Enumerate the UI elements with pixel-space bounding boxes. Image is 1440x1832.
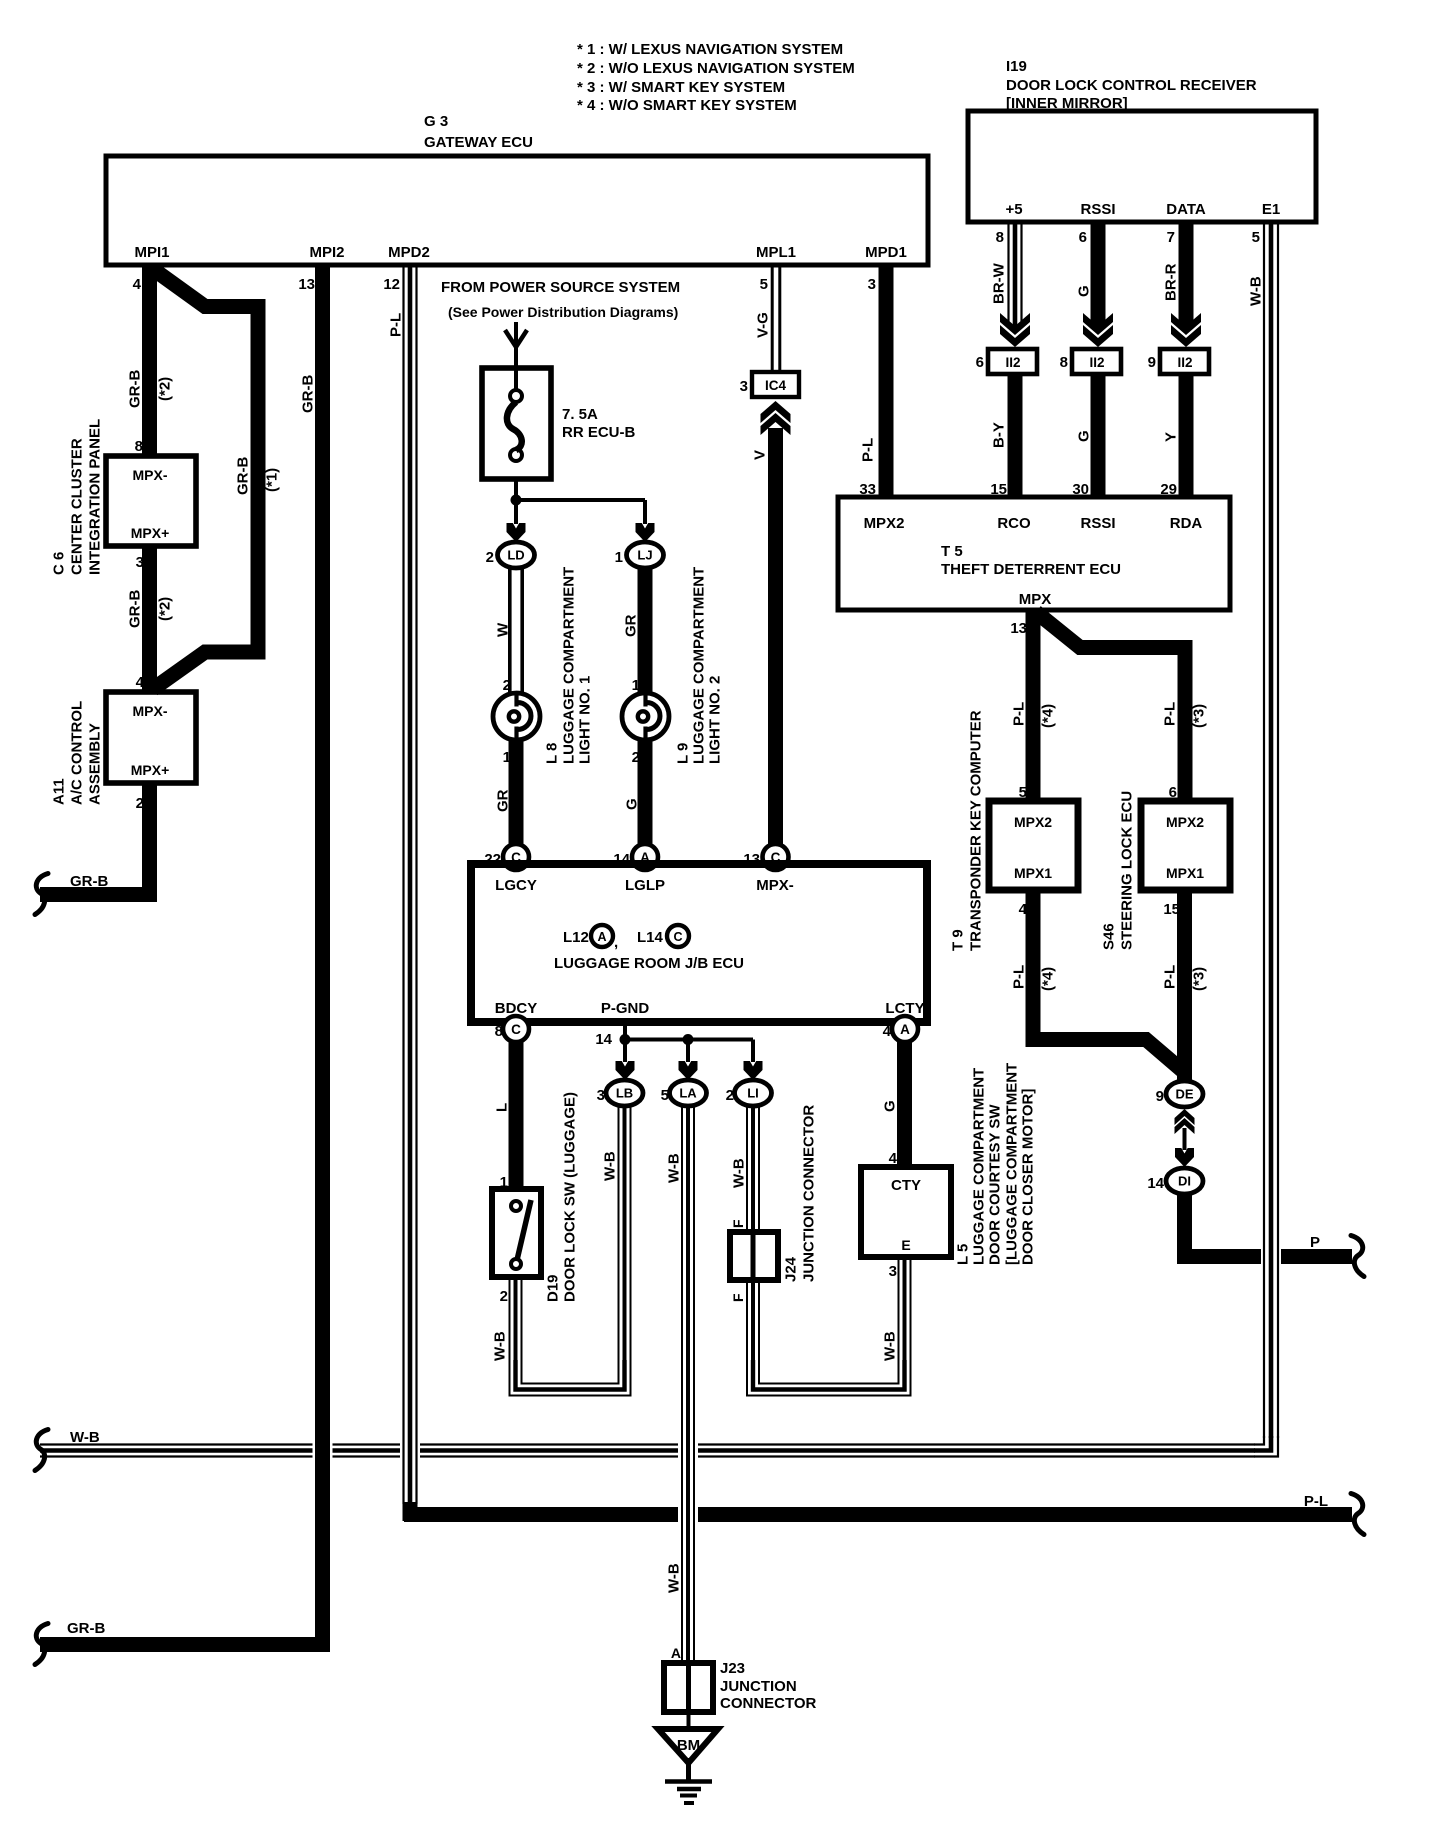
svg-text:B-Y: B-Y bbox=[990, 422, 1007, 448]
svg-text:8: 8 bbox=[996, 229, 1004, 246]
svg-text:RCO: RCO bbox=[997, 515, 1031, 532]
svg-text:GR-B: GR-B bbox=[299, 375, 316, 413]
svg-text:14: 14 bbox=[595, 1031, 612, 1048]
svg-text:LUGGAGE COMPARTMENT: LUGGAGE COMPARTMENT bbox=[560, 567, 577, 764]
svg-text:MPX: MPX bbox=[1019, 591, 1052, 608]
svg-text:C 6: C 6 bbox=[50, 552, 67, 575]
svg-text:3: 3 bbox=[597, 1087, 605, 1104]
svg-text:BR-R: BR-R bbox=[1162, 263, 1179, 301]
wire MPI2 GR-B long bbox=[40, 265, 323, 1645]
wire MPL1 V-G double bbox=[754, 265, 779, 372]
svg-text:5: 5 bbox=[1252, 229, 1260, 246]
svg-text:(*2): (*2) bbox=[156, 377, 173, 401]
svg-text:7: 7 bbox=[1167, 229, 1175, 246]
wire Y to RDA bbox=[1160, 374, 1186, 498]
svg-text:DOOR COURTESY SW: DOOR COURTESY SW bbox=[986, 1104, 1003, 1265]
lamp L9 luggage compartment light no.2 bbox=[622, 693, 669, 740]
connector DI pin 14 bbox=[1147, 1168, 1203, 1194]
svg-text:F: F bbox=[730, 1219, 746, 1228]
wire W-B loop LI to CTY E bbox=[747, 1360, 911, 1396]
wire to LD bbox=[514, 505, 518, 524]
svg-text:W-B: W-B bbox=[491, 1331, 508, 1361]
svg-text:W-B: W-B bbox=[665, 1153, 682, 1183]
from power source note bbox=[441, 279, 680, 320]
svg-text:MPD2: MPD2 bbox=[388, 244, 430, 261]
svg-text:3: 3 bbox=[740, 378, 748, 395]
wire W-B below J24 bbox=[730, 1280, 759, 1362]
wire W-B LA to J23 bbox=[665, 1106, 694, 1663]
wire W-B loop D19 to LB bbox=[510, 1360, 631, 1396]
svg-text:GR-B: GR-B bbox=[126, 590, 143, 628]
svg-text:MPL1: MPL1 bbox=[756, 244, 796, 261]
wire G below L9 bbox=[623, 740, 645, 846]
svg-text:* 1 : W/ LEXUS NAVIGATION SYST: * 1 : W/ LEXUS NAVIGATION SYSTEM bbox=[577, 41, 843, 58]
svg-text:W-B: W-B bbox=[70, 1429, 100, 1446]
svg-text:15: 15 bbox=[1163, 901, 1180, 918]
fuse 7.5A RR ECU-B bbox=[482, 368, 635, 479]
svg-text:D19: D19 bbox=[544, 1274, 561, 1302]
luggage room J/B ECU box bbox=[471, 864, 927, 1022]
svg-text:MPX2: MPX2 bbox=[864, 515, 905, 532]
svg-text:MPX-: MPX- bbox=[133, 703, 168, 719]
svg-text:GR-B: GR-B bbox=[67, 1620, 105, 1637]
svg-text:CTY: CTY bbox=[891, 1177, 921, 1194]
arrow into LB bbox=[616, 1061, 635, 1080]
wire P-GND horizontal bbox=[625, 1038, 753, 1042]
svg-text:A: A bbox=[900, 1022, 910, 1037]
svg-text:GR-B: GR-B bbox=[126, 370, 143, 408]
svg-text:MPX2: MPX2 bbox=[1014, 814, 1052, 830]
wire W-B below D19 bbox=[491, 1277, 521, 1362]
svg-text:MPI1: MPI1 bbox=[134, 244, 169, 261]
junction node below fuse bbox=[511, 495, 522, 506]
CTY courtesy switch box bbox=[861, 1167, 951, 1257]
svg-text:BR-W: BR-W bbox=[990, 262, 1007, 304]
wire fuse to junction bbox=[514, 479, 518, 500]
svg-text:INTEGRATION PANEL: INTEGRATION PANEL bbox=[86, 419, 103, 575]
svg-text:P-L: P-L bbox=[1161, 702, 1178, 726]
arrow into LJ bbox=[636, 523, 655, 542]
svg-text:DE: DE bbox=[1175, 1087, 1193, 1102]
svg-text:MPX+: MPX+ bbox=[131, 762, 170, 778]
svg-text:P-L: P-L bbox=[859, 438, 876, 462]
svg-text:Y: Y bbox=[1162, 432, 1179, 442]
wire W-B LI to J24 bbox=[730, 1106, 759, 1232]
svg-text:14: 14 bbox=[1147, 1175, 1164, 1192]
svg-text:4: 4 bbox=[136, 674, 145, 691]
svg-text:+5: +5 bbox=[1005, 201, 1022, 218]
svg-text:13: 13 bbox=[298, 276, 315, 293]
svg-text:A/C CONTROL: A/C CONTROL bbox=[68, 701, 85, 805]
wire J23 to ground bbox=[687, 1712, 691, 1729]
svg-text:(*3): (*3) bbox=[1190, 704, 1207, 728]
S46 steering lock ECU box bbox=[1141, 801, 1230, 890]
svg-text:6: 6 bbox=[976, 354, 984, 371]
connector C pin 8 bbox=[495, 1016, 529, 1042]
svg-text:MPX+: MPX+ bbox=[131, 525, 170, 541]
connector DE pin 9 bbox=[1156, 1081, 1203, 1107]
svg-text:L 9: L 9 bbox=[674, 743, 691, 764]
C6 center cluster integration panel box bbox=[106, 438, 196, 571]
wire V from IC4 to MPX- bbox=[751, 428, 775, 846]
svg-text:RR ECU-B: RR ECU-B bbox=[562, 424, 635, 441]
ground BM bbox=[658, 1729, 718, 1803]
svg-text:P-L: P-L bbox=[1161, 965, 1178, 989]
J24 vertical label bbox=[782, 1105, 817, 1282]
wire GR-B (*1) bypass bbox=[153, 269, 280, 689]
svg-text:1: 1 bbox=[632, 677, 640, 694]
svg-text:MPI2: MPI2 bbox=[309, 244, 344, 261]
GR-B left harness continuation bbox=[35, 874, 48, 915]
svg-text:3: 3 bbox=[868, 276, 876, 293]
wire GR-B from A11 to left bbox=[40, 783, 150, 895]
svg-text:FROM POWER SOURCE SYSTEM: FROM POWER SOURCE SYSTEM bbox=[441, 279, 680, 296]
arrow down into DI bbox=[1175, 1148, 1194, 1167]
arrow into II2 no.3 bbox=[1171, 313, 1201, 347]
svg-text:LUGGAGE COMPARTMENT: LUGGAGE COMPARTMENT bbox=[690, 567, 707, 764]
wire MPD1 P-L to T5 bbox=[859, 265, 886, 498]
svg-text:W-B: W-B bbox=[665, 1563, 682, 1593]
connector II2 pin 9 bbox=[1148, 349, 1209, 374]
svg-text:P-L: P-L bbox=[1010, 965, 1027, 989]
gateway ECU G3 box bbox=[106, 113, 928, 265]
svg-text:S46: S46 bbox=[1100, 923, 1117, 950]
svg-text:L14: L14 bbox=[637, 929, 664, 946]
svg-text:(*4): (*4) bbox=[1039, 704, 1056, 728]
svg-text:1: 1 bbox=[503, 749, 511, 766]
wire W between LD and L8 bbox=[494, 568, 522, 694]
wire MPI1 GR-B (*2) upper bbox=[126, 265, 173, 457]
svg-text:V: V bbox=[751, 450, 768, 460]
wire DATA BR-R bbox=[1162, 222, 1186, 327]
door lock SW D19 box bbox=[492, 1189, 541, 1277]
connector LB pin 3 bbox=[597, 1080, 643, 1106]
svg-text:JUNCTION: JUNCTION bbox=[720, 1678, 797, 1695]
svg-text:A11: A11 bbox=[50, 778, 67, 805]
W-B left harness continuation bbox=[35, 1430, 48, 1471]
svg-text:1: 1 bbox=[615, 549, 623, 566]
S46 vertical label bbox=[1100, 791, 1135, 950]
svg-text:L 5: L 5 bbox=[954, 1244, 971, 1265]
L9 vertical label bbox=[674, 567, 723, 764]
wire W-B below LB bbox=[601, 1106, 630, 1362]
junction connector J24 bbox=[730, 1232, 778, 1280]
svg-text:F: F bbox=[730, 1293, 746, 1302]
legend note *1-*4 bbox=[577, 41, 855, 114]
svg-text:T 5: T 5 bbox=[941, 543, 963, 560]
arrow into II2 no.2 bbox=[1083, 313, 1113, 347]
connector IC4 pin 3 bbox=[740, 372, 799, 397]
svg-text:7. 5A: 7. 5A bbox=[562, 406, 598, 423]
T5 theft deterrent ECU box bbox=[838, 497, 1230, 610]
svg-text:(See Power Distribution Diagra: (See Power Distribution Diagrams) bbox=[448, 304, 678, 320]
svg-text:DOOR LOCK SW (LUGGAGE): DOOR LOCK SW (LUGGAGE) bbox=[561, 1092, 578, 1302]
svg-text:4: 4 bbox=[133, 276, 142, 293]
wire RSSI G bbox=[1075, 222, 1098, 327]
svg-text:MPD1: MPD1 bbox=[865, 244, 907, 261]
wire +5 BR-W bbox=[990, 222, 1021, 327]
L8 vertical label bbox=[543, 567, 593, 764]
svg-text:8: 8 bbox=[1060, 354, 1068, 371]
door lock control receiver I19 box bbox=[968, 58, 1316, 222]
svg-text:CONNECTOR: CONNECTOR bbox=[720, 1695, 817, 1712]
wire stub LI bbox=[751, 1040, 755, 1063]
wire G LCTY to CTY bbox=[881, 1042, 904, 1167]
svg-text:G 3: G 3 bbox=[424, 113, 448, 130]
T9 transponder key computer box bbox=[989, 801, 1078, 890]
svg-text:G: G bbox=[881, 1100, 898, 1112]
C6 vertical label bbox=[50, 419, 103, 575]
wire GR-B (*2) C6 to A11 bbox=[126, 546, 173, 692]
wire P-GND down bbox=[595, 1022, 625, 1048]
svg-text:P-L: P-L bbox=[1304, 1493, 1328, 1510]
wire branch to LJ bbox=[516, 500, 645, 524]
wire W-B below CTY bbox=[881, 1257, 910, 1362]
svg-text:ASSEMBLY: ASSEMBLY bbox=[86, 723, 103, 805]
svg-text:LGCY: LGCY bbox=[495, 877, 537, 894]
svg-text:DOOR LOCK CONTROL RECEIVER: DOOR LOCK CONTROL RECEIVER bbox=[1006, 77, 1257, 94]
svg-text:CENTER CLUSTER: CENTER CLUSTER bbox=[68, 438, 85, 575]
arrow into LA bbox=[679, 1061, 698, 1080]
svg-text:* 2 : W/O LEXUS NAVIGATION SYS: * 2 : W/O LEXUS NAVIGATION SYSTEM bbox=[577, 60, 855, 77]
svg-text:(*4): (*4) bbox=[1039, 967, 1056, 991]
wire B-Y to RCO bbox=[990, 374, 1015, 498]
wire stub LB bbox=[623, 1040, 627, 1063]
connector LI pin 2 bbox=[726, 1080, 772, 1106]
svg-text:9: 9 bbox=[1148, 354, 1156, 371]
svg-text:GR-B: GR-B bbox=[234, 457, 251, 495]
lamp L8 luggage compartment light no.1 bbox=[493, 693, 540, 740]
svg-text:TRANSPONDER KEY COMPUTER: TRANSPONDER KEY COMPUTER bbox=[967, 710, 984, 951]
svg-text:L: L bbox=[493, 1103, 510, 1112]
svg-text:W-B: W-B bbox=[1247, 276, 1264, 306]
svg-text:LD: LD bbox=[507, 548, 524, 563]
svg-text:5: 5 bbox=[760, 276, 768, 293]
svg-text:I19: I19 bbox=[1006, 58, 1027, 75]
arrow into LI bbox=[744, 1061, 763, 1080]
wire P-L horizontal to right bbox=[404, 1493, 1352, 1521]
T9 vertical label bbox=[949, 710, 984, 951]
svg-text:STEERING LOCK ECU: STEERING LOCK ECU bbox=[1118, 791, 1135, 950]
svg-text:V-G: V-G bbox=[754, 312, 771, 338]
svg-text:(*2): (*2) bbox=[156, 597, 173, 621]
svg-text:5: 5 bbox=[661, 1087, 669, 1104]
svg-text:DATA: DATA bbox=[1166, 201, 1206, 218]
GR-B bottom-left harness continuation bbox=[35, 1624, 48, 1665]
wire W-B horizontal bottom bbox=[40, 1429, 1255, 1457]
svg-text:2: 2 bbox=[632, 749, 640, 766]
connector LJ pin 1 bbox=[615, 542, 664, 568]
svg-text:C: C bbox=[673, 930, 682, 944]
svg-text:2: 2 bbox=[726, 1087, 734, 1104]
arrow into LD bbox=[507, 523, 526, 542]
A11 vertical label bbox=[50, 701, 103, 805]
P-L right harness continuation bbox=[1351, 1494, 1364, 1535]
svg-text:P-L: P-L bbox=[1010, 702, 1027, 726]
svg-text:G: G bbox=[1075, 430, 1092, 442]
svg-text:W-B: W-B bbox=[601, 1151, 618, 1181]
wire W-B corner bottom right bbox=[1254, 1436, 1278, 1457]
svg-text:G: G bbox=[623, 798, 640, 810]
svg-text:4: 4 bbox=[883, 1023, 892, 1040]
svg-text:P-L: P-L bbox=[387, 313, 404, 337]
svg-text:L 8: L 8 bbox=[543, 743, 560, 764]
svg-text:C: C bbox=[511, 1022, 521, 1037]
svg-text:RSSI: RSSI bbox=[1080, 515, 1115, 532]
svg-text:3: 3 bbox=[889, 1263, 897, 1280]
connector C pin 22 bbox=[484, 844, 529, 870]
svg-text:9: 9 bbox=[1156, 1088, 1164, 1105]
svg-text:[INNER MIRROR]: [INNER MIRROR] bbox=[1006, 95, 1128, 112]
svg-text:II2: II2 bbox=[1089, 355, 1104, 370]
wire MPX- V to JB bbox=[768, 839, 783, 854]
connector C pin 13 bbox=[743, 844, 788, 870]
junction node P-GND 1 bbox=[620, 1034, 631, 1045]
L5 vertical label bbox=[954, 1063, 1036, 1265]
svg-text:IC4: IC4 bbox=[765, 378, 787, 393]
connector LD pin 2 bbox=[486, 542, 535, 568]
svg-text:BM: BM bbox=[677, 1737, 700, 1754]
receiver pin numbers bbox=[996, 229, 1260, 246]
svg-text:LJ: LJ bbox=[637, 548, 652, 563]
svg-text:MPX2: MPX2 bbox=[1166, 814, 1204, 830]
svg-text:MPX1: MPX1 bbox=[1166, 865, 1204, 881]
svg-text:J23: J23 bbox=[720, 1660, 745, 1677]
connector A pin 4 bbox=[883, 1016, 918, 1042]
svg-text:4: 4 bbox=[1019, 901, 1028, 918]
svg-text:8: 8 bbox=[495, 1023, 503, 1040]
svg-text:2: 2 bbox=[500, 1288, 508, 1305]
connector II2 pin 8 bbox=[1060, 349, 1121, 374]
svg-text:JUNCTION CONNECTOR: JUNCTION CONNECTOR bbox=[800, 1105, 817, 1282]
arrow up into IC4 bbox=[761, 401, 791, 435]
wire T9 MPX1 P-L (*4) to DE bbox=[1010, 890, 1184, 1072]
wire into fuse with arrow bbox=[505, 322, 527, 392]
svg-text:W: W bbox=[494, 622, 511, 637]
svg-text:J24: J24 bbox=[782, 1256, 799, 1282]
junction node P-GND 2 bbox=[683, 1034, 694, 1045]
A11 A/C control assembly box bbox=[106, 674, 196, 812]
svg-text:E1: E1 bbox=[1262, 201, 1280, 218]
svg-text:2: 2 bbox=[486, 549, 494, 566]
wire MPD2 P-L shielded vertical bbox=[387, 265, 416, 1504]
svg-text:6: 6 bbox=[1079, 229, 1087, 246]
svg-text:E: E bbox=[901, 1237, 910, 1253]
svg-text:13: 13 bbox=[1010, 620, 1027, 637]
svg-text:P-GND: P-GND bbox=[601, 1000, 650, 1017]
svg-text:RSSI: RSSI bbox=[1080, 201, 1115, 218]
svg-text:MPX-: MPX- bbox=[133, 467, 168, 483]
svg-text:GR-B: GR-B bbox=[70, 873, 108, 890]
svg-text:LIGHT NO. 1: LIGHT NO. 1 bbox=[576, 676, 593, 764]
svg-text:8: 8 bbox=[135, 438, 143, 455]
wire between DE and DI bbox=[1183, 1128, 1187, 1150]
wire E1 W-B long bbox=[1247, 222, 1278, 1438]
svg-text:DI: DI bbox=[1178, 1174, 1191, 1189]
svg-text:MPX-: MPX- bbox=[756, 877, 794, 894]
svg-text:LIGHT NO. 2: LIGHT NO. 2 bbox=[706, 676, 723, 764]
svg-text:T 9: T 9 bbox=[949, 929, 966, 951]
svg-text:* 4 : W/O SMART KEY SYSTEM: * 4 : W/O SMART KEY SYSTEM bbox=[577, 97, 797, 114]
wire GR between LJ and L9 bbox=[622, 568, 645, 694]
svg-text:MPX1: MPX1 bbox=[1014, 865, 1052, 881]
svg-text:THEFT DETERRENT ECU: THEFT DETERRENT ECU bbox=[941, 561, 1121, 578]
svg-text:GATEWAY ECU: GATEWAY ECU bbox=[424, 134, 533, 151]
wire L BDCY to D19 bbox=[493, 1042, 516, 1191]
junction connector J23 pin A bbox=[664, 1660, 817, 1712]
svg-text:LB: LB bbox=[616, 1086, 633, 1101]
connector A pin 14 bbox=[613, 844, 658, 870]
svg-text:II2: II2 bbox=[1005, 355, 1020, 370]
svg-text:A: A bbox=[597, 930, 606, 944]
wire stub LA bbox=[686, 1040, 690, 1063]
svg-text:W-B: W-B bbox=[881, 1331, 898, 1361]
wire S46 MPX1 P-L (*3) to DE bbox=[1161, 890, 1207, 1082]
svg-text:LUGGAGE ROOM J/B ECU: LUGGAGE ROOM J/B ECU bbox=[554, 955, 744, 972]
gateway pin numbers bbox=[133, 276, 876, 293]
svg-text:II2: II2 bbox=[1177, 355, 1192, 370]
svg-text:GR: GR bbox=[494, 789, 511, 812]
svg-text:GR: GR bbox=[622, 614, 639, 637]
wire MPX branch P-L (*3) bbox=[1036, 612, 1207, 801]
svg-text:* 3 : W/ SMART KEY SYSTEM: * 3 : W/ SMART KEY SYSTEM bbox=[577, 79, 785, 96]
connector II2 pin 6 bbox=[976, 349, 1037, 374]
svg-text:DOOR CLOSER MOTOR]: DOOR CLOSER MOTOR] bbox=[1019, 1089, 1036, 1265]
wire GR below L8 bbox=[494, 740, 516, 846]
svg-text:LA: LA bbox=[679, 1086, 697, 1101]
svg-text:W-B: W-B bbox=[730, 1158, 747, 1188]
svg-text:RDA: RDA bbox=[1170, 515, 1203, 532]
D19 vertical label bbox=[544, 1092, 578, 1302]
svg-text:2: 2 bbox=[503, 677, 511, 694]
svg-text:(*1): (*1) bbox=[263, 468, 280, 492]
svg-text:L12: L12 bbox=[563, 929, 589, 946]
svg-text:G: G bbox=[1075, 285, 1092, 297]
arrow into II2 no.1 bbox=[1000, 313, 1030, 347]
connector LA pin 5 bbox=[661, 1080, 707, 1106]
svg-text:LGLP: LGLP bbox=[625, 877, 665, 894]
svg-text:A: A bbox=[671, 1645, 681, 1661]
wire MPX P-L (*4) down bbox=[1010, 610, 1056, 801]
arrow up below DE bbox=[1175, 1109, 1195, 1134]
svg-text:P: P bbox=[1310, 1234, 1320, 1251]
wire G to RSSI bbox=[1072, 374, 1098, 498]
svg-text:LI: LI bbox=[747, 1086, 759, 1101]
svg-text:[LUGGAGE COMPARTMENT: [LUGGAGE COMPARTMENT bbox=[1003, 1063, 1020, 1265]
P right harness continuation bbox=[1351, 1236, 1364, 1277]
svg-text:LUGGAGE COMPARTMENT: LUGGAGE COMPARTMENT bbox=[970, 1068, 987, 1265]
wire P from DI to right bbox=[1185, 1194, 1353, 1257]
svg-text:(*3): (*3) bbox=[1190, 967, 1207, 991]
svg-text:12: 12 bbox=[383, 276, 400, 293]
